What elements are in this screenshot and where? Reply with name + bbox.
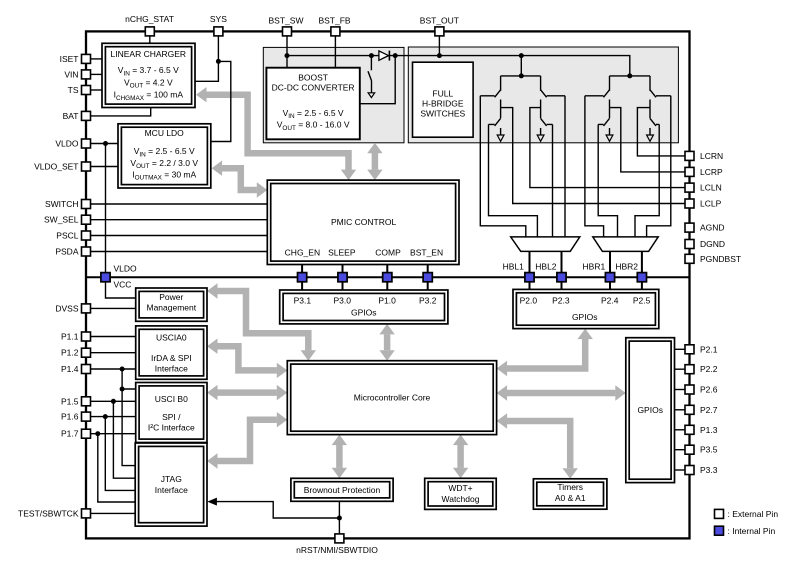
block USCI B0 SPI-I2C Interface [136,383,207,443]
internal pin CHG_EN [298,273,307,282]
svg-text:LCRP: LCRP [700,167,723,177]
wire brownout to nRST pin [338,501,340,534]
svg-text:H-BRIDGE: H-BRIDGE [422,98,464,108]
external pin SWITCH [82,200,91,209]
ground arrow of leg x=540.6 [537,135,544,141]
svg-text:P1.6: P1.6 [61,412,79,422]
svg-text:DGND: DGND [700,239,725,249]
svg-text:P2.1: P2.1 [700,344,718,354]
wire VIN [91,73,103,75]
svg-text:VCC: VCC [114,280,132,290]
svg-text:GPIOs: GPIOs [572,312,598,322]
svg-text:Power: Power [159,292,183,302]
block GPIOs right [626,338,675,483]
gray arrow: MCU core to Brownout Protection (double) [332,435,347,479]
external pin TEST/SBWTCK [82,509,91,518]
svg-text:P3.3: P3.3 [700,465,718,475]
svg-text:Microcontroller Core: Microcontroller Core [354,393,431,403]
wire half-bridge leg at x=650.0 [649,76,651,91]
wire leg output node to pin [610,108,690,172]
internal pin HBR1 [605,273,614,282]
external pin TS [82,86,91,95]
svg-text:PGNDBST: PGNDBST [700,254,741,264]
block BOOST DC-DC CONVERTER [266,68,359,140]
wire TEST/SBWTCK [91,512,136,514]
external pin LCRP [685,167,694,176]
svg-text:VLDO_SET: VLDO_SET [34,162,78,172]
external pin nRST/NMI/SBWTDIO [335,534,344,543]
external pin P1.1 [82,332,91,341]
svg-text:P3.1: P3.1 [294,296,312,306]
wire half-bridge leg at x=540.6 [540,76,542,91]
svg-text:nCHG_STAT: nCHG_STAT [125,14,174,24]
ground arrow of leg x=650.0 [647,135,654,141]
wire bottom-switch tap to mux [598,124,617,236]
svg-text:Interface: Interface [155,364,188,374]
block GPIOs P2.x [513,289,659,328]
svg-text:ISET: ISET [60,54,79,64]
junction dots [216,59,221,64]
block LINEAR CHARGER [102,43,195,107]
outer boundary of device [86,31,690,538]
wire left mux outputs HBL1 HBL2 [530,251,562,289]
internal pin VCC [101,273,110,282]
svg-text:I²C Interface: I²C Interface [148,423,195,433]
wire PSDA [91,251,268,253]
external pin P1.2 [82,348,91,357]
wire bottom-switch tap to mux [489,124,538,236]
external pin P2.6 [685,385,694,394]
wire nRST to JTAG interface [217,502,340,518]
svg-text:P1.7: P1.7 [61,429,79,439]
wire SW_SEL [91,219,268,221]
gray arrow: USCIA0 to MCU core [207,339,287,379]
wire SYS branch to MCU LDO [211,61,231,141]
svg-text:PMIC CONTROL: PMIC CONTROL [331,217,396,227]
wire leg output node to pin [530,108,690,188]
svg-text:P1.3: P1.3 [700,425,718,435]
svg-text:A0 & A1: A0 & A1 [555,493,586,503]
external pin DGND [685,240,694,249]
wire half-bridge leg at x=609.5 [609,76,611,91]
external pin P2.1 [685,345,694,354]
svg-text:BOOST: BOOST [298,73,328,83]
wire right bridge T-bar [610,75,651,77]
svg-text:DVSS: DVSS [55,303,78,313]
svg-text:P1.1: P1.1 [61,332,79,342]
external pin P1.5 [82,397,91,406]
svg-text:P2.4: P2.4 [601,296,619,306]
gray arrow: MCU LDO to PMIC control [212,161,268,198]
external pin VLDO [82,139,91,148]
svg-text:SLEEP: SLEEP [328,248,356,258]
external pin VLDO_SET [82,162,91,171]
svg-text:GPIOs: GPIOs [351,308,377,318]
internal pin HBL1 [525,273,534,282]
wire P1.7 branch to JTAG [98,434,136,502]
wire left bridge T-bar and feed [501,56,541,76]
block Timers A0-A1 [533,479,607,509]
block PMIC CONTROL [267,180,459,264]
svg-text:SW_SEL: SW_SEL [44,215,79,225]
external pin PGNDBST [685,254,694,263]
external pin PSCL [82,231,91,240]
external pin SW_SEL [82,215,91,224]
svg-text:: Internal Pin: : Internal Pin [728,526,776,536]
svg-text:PSDA: PSDA [55,247,78,257]
wire VLDO branch to VCC pin and Power Management [106,144,136,299]
svg-text:LCLN: LCLN [700,183,722,193]
svg-text:HBL2: HBL2 [535,261,557,271]
svg-text:JTAG: JTAG [161,474,182,484]
wire BAT [91,108,151,116]
ground arrow of leg x=609.5 [606,135,613,141]
wire P1.4 [91,368,136,370]
external pin P1.4 [82,365,91,374]
gray arrow: USCI B0 to MCU core (double) [207,385,287,400]
wire BST_FB stub [334,36,336,68]
svg-text:Interface: Interface [155,485,188,495]
wire VLDO_SET [91,166,119,168]
svg-text:USCI B0: USCI B0 [155,394,188,404]
svg-text:P2.6: P2.6 [700,385,718,395]
wire nCHG_STAT stub [149,36,151,43]
internal pin HBL2 [557,273,566,282]
gray arrow: GPIOs P3.x to MCU core (double vertical) [379,324,394,361]
legend external pin symbol [715,509,724,518]
wire top-switch tap to mux [585,96,604,237]
svg-text:Management: Management [146,303,196,313]
svg-text:P3.2: P3.2 [419,296,437,306]
wire P1.1 [91,336,136,338]
svg-text:nRST/NMI/SBWTDIO: nRST/NMI/SBWTDIO [296,545,378,555]
svg-text:LCLP: LCLP [700,199,722,209]
svg-text:COMP: COMP [375,248,401,258]
external pin BAT [82,111,91,120]
svg-text:SYS: SYS [210,14,227,24]
external pin P2.2 [685,365,694,374]
external pin LCRN [685,151,694,160]
wire boost output rail [287,56,630,76]
gray arrow: power management to MCU core [207,283,316,360]
wire BST_OUT stub [438,36,440,56]
svg-text:DC-DC CONVERTER: DC-DC CONVERTER [272,83,355,93]
gray arrow: MCU core to WDT Watchdog (double) [453,435,468,479]
svg-text:HBL1: HBL1 [503,261,525,271]
wire right mux outputs HBR1 HBR2 [610,251,642,289]
svg-text:Brownout Protection: Brownout Protection [304,485,381,495]
boost converter shaded region [263,47,404,142]
external pin P2.7 [685,405,694,414]
block JTAG Interface [135,443,207,526]
wire TS [91,89,103,91]
svg-text:IrDA & SPI: IrDA & SPI [151,353,192,363]
svg-text:P1.2: P1.2 [61,348,79,358]
external pin SYS [214,27,223,36]
svg-text:Timers: Timers [557,482,583,492]
svg-text:BAT: BAT [63,111,79,121]
external pin nCHG_STAT [145,27,154,36]
svg-text:LCRN: LCRN [700,151,723,161]
wire top-switch tap to mux [480,96,526,237]
block WDT+ Watchdog [425,478,497,509]
svg-text:TEST/SBWTCK: TEST/SBWTCK [18,508,79,518]
external pin LCLP [685,199,694,208]
gray arrow: linear charger to PMIC control [196,87,356,180]
internal pin BST_EN [423,273,432,282]
wire GPIOs to right pins [675,348,686,350]
external pin VIN [82,70,91,79]
svg-text:SWITCH: SWITCH [45,199,79,209]
wire top-switch tap to mux [647,96,671,237]
svg-text:Watchdog: Watchdog [442,494,480,504]
svg-text:LINEAR CHARGER: LINEAR CHARGER [111,49,187,59]
svg-text:P2.5: P2.5 [633,296,651,306]
wire SYS to linear charger [195,36,218,81]
wire P1.4 branch to USCI B0 and JTAG [122,369,136,466]
svg-text:P1.4: P1.4 [61,364,79,374]
mux left (HBL) [511,237,580,252]
wire P1.7 [91,433,136,435]
gray arrow: GPIOs P2.x to MCU core [497,329,593,377]
block USCIA0 IrDA-SPI Interface [136,326,207,379]
block Power Management [136,288,207,321]
ground arrow of leg x=500.6 [497,135,504,141]
svg-text:USCIA0: USCIA0 [156,333,187,343]
wire PMIC control outputs to GPIOs [302,265,428,290]
external pin P3.5 [685,445,694,454]
external pin AGND [685,223,694,232]
wire P1.6 [91,416,136,418]
boost switch S1 [368,56,372,93]
gray arrow: MCU core to right GPIOs (double horizontal) [497,385,626,400]
wire leg output node to pin [501,108,690,204]
svg-text:P1.5: P1.5 [61,396,79,406]
svg-text:BST_SW: BST_SW [269,15,304,25]
wire BST_SW stub [286,36,288,68]
external pin P1.7 [82,429,91,438]
block FULL H-BRIDGE SWITCHES [413,62,474,137]
external pin P3.3 [685,466,694,475]
gray arrow: MCU core to Timers [497,413,578,479]
wire VCC rail [86,276,690,278]
mux right (HBR) [593,237,658,252]
wire PSCL [91,235,268,237]
wire top-switch tap to mux [547,96,565,237]
svg-text:PSCL: PSCL [56,231,78,241]
svg-text:GPIOs: GPIOs [637,405,663,415]
gray arrow: boost region to PMIC control (double) [367,143,382,180]
wire bottom-switch tap to mux [635,124,659,236]
external pin BST_FB [331,27,340,36]
svg-text:WDT+: WDT+ [448,483,472,493]
svg-text:SPI /: SPI / [162,412,181,422]
wire leg output node to pin [637,108,689,156]
wire P1.5 [91,400,136,402]
external pin BST_OUT [435,27,444,36]
wire DVSS [91,307,136,309]
svg-text:AGND: AGND [700,223,725,233]
svg-text:P3.0: P3.0 [333,296,351,306]
external pin P1.3 [685,425,694,434]
internal pin SLEEP [338,273,347,282]
svg-text:BST_OUT: BST_OUT [420,15,459,25]
wire diode cathode to boost box [360,56,395,104]
external pin PSDA [82,247,91,256]
wire half-bridge leg at x=500.6 [500,76,502,91]
wire bottom-switch tap to mux [547,124,553,236]
block Microcontroller Core [287,361,496,435]
svg-text:P2.3: P2.3 [552,296,570,306]
svg-text:VIN: VIN [64,69,78,79]
wire SWITCH [91,203,268,205]
internal pin COMP [383,273,392,282]
svg-text:SWITCHES: SWITCHES [420,108,465,118]
gray arrow: JTAG to MCU core [207,412,287,469]
svg-text:BST_FB: BST_FB [318,15,350,25]
svg-text:FULL: FULL [432,88,453,98]
block MCU LDO [118,124,211,188]
external pin ISET [82,54,91,63]
svg-text:P2.0: P2.0 [520,296,538,306]
external pin DVSS [82,304,91,313]
svg-text:VLDO: VLDO [55,139,79,149]
wire P1.2 [91,352,136,354]
diode D1 [379,51,389,60]
wire P1.5 branch to JTAG [113,401,135,478]
svg-text:BST_EN: BST_EN [410,248,443,258]
block Brownout Protection [291,478,393,501]
wire P1.6 branch to JTAG [105,417,135,491]
svg-text:P2.2: P2.2 [700,364,718,374]
internal pin HBR2 [637,273,646,282]
svg-text:P2.7: P2.7 [700,405,718,415]
external pin LCLN [685,183,694,192]
block GPIOs P3.x [280,290,448,324]
svg-text:VLDO: VLDO [114,263,138,273]
external pin P1.6 [82,412,91,421]
external pin BST_SW [283,27,292,36]
svg-text:CHG_EN: CHG_EN [285,248,320,258]
legend internal pin symbol [715,526,724,535]
wire ISET [91,58,103,60]
svg-text:HBR1: HBR1 [583,261,606,271]
svg-text:: External Pin: : External Pin [728,509,779,519]
svg-text:TS: TS [68,85,79,95]
svg-text:P3.5: P3.5 [700,445,718,455]
svg-text:P1.0: P1.0 [378,296,396,306]
svg-text:MCU LDO: MCU LDO [145,128,185,138]
h-bridge shaded region [408,47,678,143]
svg-text:HBR2: HBR2 [615,261,638,271]
wire VLDO to MCU LDO [91,143,119,145]
